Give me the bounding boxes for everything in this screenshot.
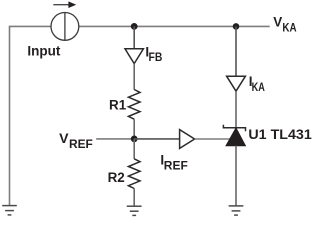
label IKA <box>249 74 265 94</box>
node VREF junction dot <box>131 136 138 143</box>
wire: R1 to VREF node <box>133 119 135 139</box>
wire: R2 top lead from VREF node <box>133 139 135 159</box>
svg-text:KA: KA <box>282 20 296 34</box>
label VREF <box>59 131 93 151</box>
wire: IREF arrow to TL431 reference input <box>195 138 230 140</box>
svg-text:R2: R2 <box>108 170 125 185</box>
resistor R1 <box>128 90 140 120</box>
svg-text:REF: REF <box>164 158 188 172</box>
svg-text:R1: R1 <box>109 98 127 113</box>
current arrow IKA (open triangle down) <box>227 76 246 91</box>
ground (under R2) <box>127 206 142 215</box>
svg-text:V: V <box>59 131 68 146</box>
label VKA <box>273 15 297 35</box>
ground (left, input return) <box>2 206 17 215</box>
label IFB <box>145 44 162 64</box>
wire: IKA branch from top rail <box>235 26 237 76</box>
wire: node to IREF arrow <box>134 138 179 140</box>
resistor R2 <box>128 159 140 189</box>
wire: current source left to corner and down to ground <box>10 26 51 205</box>
wire: arrow to R1 <box>133 64 135 90</box>
svg-text:U1 TL431: U1 TL431 <box>248 127 312 142</box>
wire: R2 to ground <box>133 189 135 207</box>
ground (under TL431) <box>229 206 244 215</box>
wire: IFB branch from top rail to arrow <box>133 26 135 48</box>
svg-text:REF: REF <box>69 137 93 151</box>
label IREF <box>160 152 187 172</box>
wire: top rail from current source to VKA <box>79 25 270 27</box>
wire: VREF label to node <box>96 138 134 140</box>
svg-text:KA: KA <box>252 80 265 94</box>
node junction dot at IKA branch <box>233 23 240 30</box>
svg-text:V: V <box>273 15 282 30</box>
wire: IKA arrow to TL431 cathode <box>235 91 237 128</box>
current source CS1 (Input) <box>51 1 79 40</box>
current arrow IREF (open triangle right) <box>180 130 195 149</box>
current arrow IFB (open triangle down) <box>125 49 143 64</box>
wire: TL431 anode to ground <box>235 146 237 206</box>
svg-text:FB: FB <box>149 50 163 64</box>
svg-text:Input: Input <box>27 43 60 58</box>
node junction dot at IFB branch <box>131 23 138 30</box>
shunt regulator U1 TL431 <box>223 125 245 146</box>
